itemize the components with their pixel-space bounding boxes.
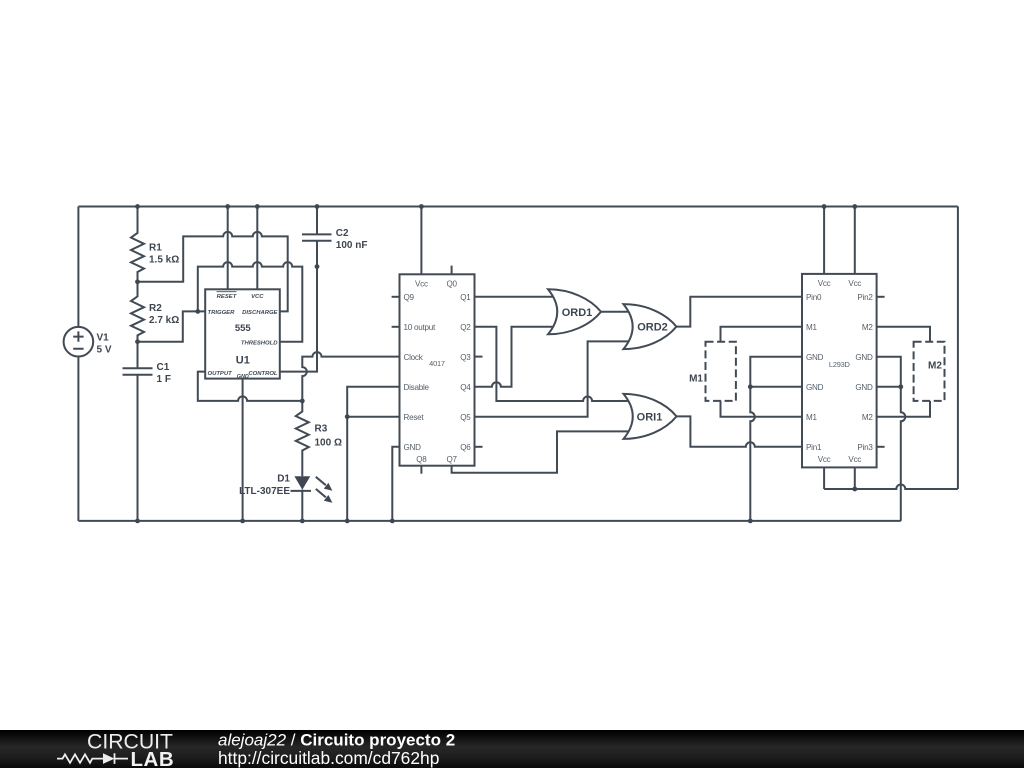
svg-text:THRESHOLD: THRESHOLD <box>241 340 278 346</box>
wire: V1 positive lead up to rail <box>77 207 79 327</box>
wire: Q1 to ORD1 input A <box>475 296 557 298</box>
svg-text:GND: GND <box>855 383 873 392</box>
wire: 555 GND down to ground rail <box>242 379 244 521</box>
svg-text:2.7 kΩ: 2.7 kΩ <box>149 315 179 326</box>
svg-text:Vcc: Vcc <box>848 455 861 464</box>
svg-text:OUTPUT: OUTPUT <box>208 371 234 377</box>
or-gate ORD2 <box>623 304 676 349</box>
wire: 4017 Disable tie-down <box>347 387 399 521</box>
svg-text:http://circuitlab.com/cd762hp: http://circuitlab.com/cd762hp <box>218 748 439 768</box>
svg-text:M1: M1 <box>689 374 703 385</box>
wire: 4017 Reset tie to Disable vertical <box>347 416 399 418</box>
wire: TRIGGER to THRESHOLD link (hops RESET, VCC and DISCHARGE verticals) <box>198 262 302 342</box>
svg-text:100 nF: 100 nF <box>336 240 368 251</box>
svg-text:Q4: Q4 <box>460 383 471 392</box>
wire: L293D bottom Vcc drops <box>824 467 855 489</box>
svg-text:ORD2: ORD2 <box>637 322 668 334</box>
wire: 4017 GND to ground rail <box>392 447 399 521</box>
svg-text:RESET: RESET <box>217 294 238 300</box>
svg-text:Disable: Disable <box>404 383 430 392</box>
wire: Q3 stub <box>475 356 483 358</box>
wire: M2 bottom terminal to L293D M2 lower <box>877 401 930 417</box>
wire: M1 top terminal to L293D M1 <box>721 327 803 342</box>
svg-text:C2: C2 <box>336 228 349 239</box>
svg-text:GND: GND <box>237 374 249 380</box>
wire: Q4 to ORD1 input B (hops Q2 vertical) <box>475 327 557 387</box>
motor driver IC L293D box <box>802 274 877 468</box>
svg-text:VCC: VCC <box>251 294 264 300</box>
svg-text:R2: R2 <box>149 303 162 314</box>
svg-text:Q3: Q3 <box>460 353 471 362</box>
wire: Q0 stub <box>451 266 453 275</box>
svg-text:L293D: L293D <box>829 360 850 369</box>
svg-text:GND: GND <box>806 353 824 362</box>
wire: R2/C1 junction to 555 TRIGGER <box>138 311 206 341</box>
wire: Q8 stub <box>420 466 422 474</box>
svg-text:Pin1: Pin1 <box>806 443 822 452</box>
svg-text:Vcc: Vcc <box>818 455 831 464</box>
wire: 555 VCC to top rail <box>256 207 258 290</box>
svg-text:Q1: Q1 <box>460 293 471 302</box>
resistor R2 <box>131 282 144 342</box>
svg-text:R3: R3 <box>315 424 328 435</box>
wire: Pin2 stub <box>877 296 885 298</box>
CircuitLab logo: resistor-diode glyph <box>57 754 103 762</box>
wire: ORD2 output to L293D Pin0 <box>676 297 802 327</box>
svg-text:V1: V1 <box>97 332 110 343</box>
svg-text:Q8: Q8 <box>416 455 427 464</box>
wire: L293D right Vcc to top rail <box>854 207 856 274</box>
svg-text:Q5: Q5 <box>460 413 471 422</box>
voltage source V1 <box>64 327 94 357</box>
or-gate ORI1 <box>624 394 677 439</box>
junction dot C2/control node <box>315 264 320 269</box>
svg-text:Q9: Q9 <box>404 293 415 302</box>
junction dot R2/C1/trigger node <box>135 339 140 344</box>
svg-text:R1: R1 <box>149 243 162 254</box>
svg-text:Reset: Reset <box>404 413 425 422</box>
svg-text:LAB: LAB <box>131 748 175 768</box>
svg-text:Vcc: Vcc <box>818 279 831 288</box>
wire: L293D left GND pair down to ground rail (arcs over M1 wire) <box>750 357 802 521</box>
svg-text:Vcc: Vcc <box>415 279 428 288</box>
svg-text:ORI1: ORI1 <box>637 411 663 423</box>
svg-text:DISCHARGE: DISCHARGE <box>242 310 278 316</box>
svg-text:ORD1: ORD1 <box>562 307 593 319</box>
wire: V1 negative lead down to ground rail <box>77 357 79 521</box>
motor M1 (dashed) <box>706 342 736 401</box>
or-gate ORD1 <box>548 289 601 334</box>
svg-text:Pin0: Pin0 <box>806 293 822 302</box>
wire: M2 top terminal to L293D M2 <box>877 327 930 342</box>
wire: 4017 Vcc to top rail <box>420 207 422 275</box>
capacitor C1 <box>123 342 153 521</box>
svg-text:Clock: Clock <box>404 353 424 362</box>
svg-text:GND: GND <box>855 353 873 362</box>
wire: 555 RESET to top rail <box>227 207 229 290</box>
svg-text:LTL-307EE: LTL-307EE <box>239 486 290 497</box>
svg-text:TRIGGER: TRIGGER <box>208 310 236 316</box>
junction dot right GND pair <box>898 384 903 389</box>
svg-text:Vcc: Vcc <box>848 279 861 288</box>
svg-text:1.5 kΩ: 1.5 kΩ <box>149 255 179 266</box>
svg-text:alejoaj22 / Circuito proyecto: alejoaj22 / Circuito proyecto 2 <box>218 730 455 749</box>
junction dots on ground rail <box>135 519 753 524</box>
svg-text:U1: U1 <box>236 355 250 367</box>
svg-text:CONTROL: CONTROL <box>248 371 278 377</box>
wire: C2 bottom to 555 CONTROL <box>280 267 317 372</box>
LED D1 <box>294 476 333 521</box>
svg-text:1 F: 1 F <box>157 374 171 385</box>
wire: L293D right GND pair down to ground rail (arcs over M2 wire) <box>877 357 906 521</box>
svg-text:Q0: Q0 <box>446 279 457 288</box>
junction dots on top rail <box>135 204 857 209</box>
svg-text:Q2: Q2 <box>460 323 471 332</box>
wire: ground bottom rail <box>78 520 900 522</box>
counter IC 4017 box <box>400 274 475 465</box>
junction dot disable/reset tie <box>345 414 350 419</box>
svg-text:M2: M2 <box>928 361 942 372</box>
motor M2 (dashed) <box>914 342 945 401</box>
wire: 10-output stub <box>392 326 400 328</box>
wire: L293D bottom Vcc horizontal (hops right GND vertical) <box>824 485 958 490</box>
junction dot R1/R2 node <box>135 279 140 284</box>
svg-text:C1: C1 <box>157 362 170 373</box>
junction dot trigger-threshold tap <box>195 309 200 314</box>
wire: Pin3 stub <box>877 446 885 448</box>
wire: +5V top rail <box>78 206 958 208</box>
wire: Q2 to ORI1 input A (hops Q5 vertical) <box>475 327 633 401</box>
capacitor C2 <box>302 207 332 267</box>
junction dot bottom Vcc <box>852 487 857 492</box>
svg-text:100 Ω: 100 Ω <box>315 438 342 449</box>
op-amp-style IC U1 555 box <box>205 289 280 378</box>
resistor R3 <box>296 401 309 476</box>
wire: ORD1 output to ORD2 input A <box>601 311 632 313</box>
wire: Q7 to ORI1 input B <box>452 431 632 472</box>
wire: Q5 to ORD2 input B <box>475 341 633 416</box>
wire: R1/R2 junction to 555 DISCHARGE (hops RESET and VCC verticals) <box>138 232 288 312</box>
svg-text:Q6: Q6 <box>460 443 471 452</box>
svg-text:M1: M1 <box>806 413 817 422</box>
svg-text:M1: M1 <box>806 323 817 332</box>
svg-text:Q7: Q7 <box>446 455 457 464</box>
svg-text:GND: GND <box>404 443 422 452</box>
svg-text:GND: GND <box>806 383 824 392</box>
wire: ORI1 output to L293D Pin1 (hops left GND vertical) <box>677 416 803 446</box>
svg-text:4017: 4017 <box>429 359 445 368</box>
wire: Q9 stub <box>392 296 400 298</box>
svg-text:M2: M2 <box>862 413 873 422</box>
wire: 555 OUTPUT down and right to clock node (hops GND vertical) <box>198 372 302 401</box>
wire: right-side 5V drop to L293D bottom Vcc <box>957 207 959 490</box>
wire: L293D left Vcc to top rail <box>823 207 825 274</box>
svg-text:Pin2: Pin2 <box>857 293 873 302</box>
svg-text:Pin3: Pin3 <box>857 443 873 452</box>
svg-text:M2: M2 <box>862 323 873 332</box>
wire: Q6 stub <box>475 446 483 448</box>
svg-text:D1: D1 <box>277 474 290 485</box>
junction dot left GND pair <box>748 384 753 389</box>
svg-text:555: 555 <box>235 323 252 334</box>
resistor R1 <box>131 207 144 282</box>
svg-text:5 V: 5 V <box>97 344 112 355</box>
wire: M1 bottom terminal to L293D M1 lower <box>721 401 803 417</box>
svg-text:10 output: 10 output <box>404 323 437 332</box>
wire: 4017 Clock to 555 output node (hops C2/CONTROL vertical, then arcs over CONTROL wire) <box>302 352 399 401</box>
junction dot 555 output / clock / R3 node <box>300 399 305 404</box>
